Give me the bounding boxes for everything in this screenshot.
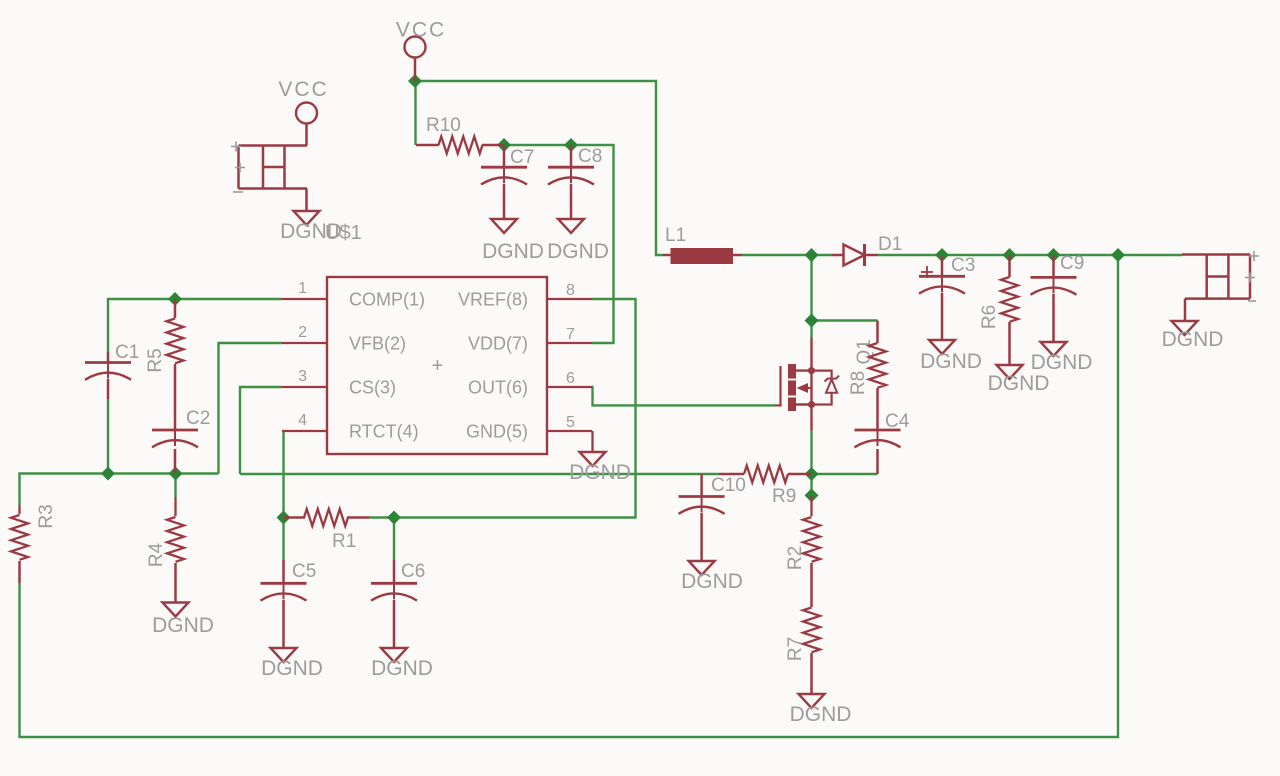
svg-text:C6: C6 <box>401 561 425 582</box>
junction C2/R4 <box>169 467 183 481</box>
inductor L1 <box>663 225 742 264</box>
capacitor C10 <box>679 474 746 561</box>
svg-text:RTCT(4): RTCT(4) <box>349 422 419 442</box>
wire output rail D1 cathode through C3 R6 C9 junctions to right battery <box>878 254 1182 256</box>
svg-text:VCC: VCC <box>278 78 328 101</box>
supply VCC (top) <box>396 19 446 82</box>
svg-text:DGND: DGND <box>988 372 1050 395</box>
svg-text:DGND: DGND <box>482 240 544 263</box>
wire GND pin5 down to ground <box>591 431 593 452</box>
svg-text:R4: R4 <box>146 542 167 567</box>
wire between R9 junction and R2 junction <box>810 474 812 495</box>
pin 7 VDD <box>468 326 592 354</box>
svg-text:GND(5): GND(5) <box>466 422 528 442</box>
svg-text:R2: R2 <box>785 546 806 570</box>
capacitor C2 <box>152 408 210 474</box>
svg-text:C5: C5 <box>292 561 316 582</box>
svg-text:7: 7 <box>566 326 575 343</box>
junction right feedback riser <box>1111 248 1125 262</box>
svg-text:DGND: DGND <box>371 657 433 680</box>
pin 5 GND <box>466 414 592 442</box>
svg-text:C3: C3 <box>951 255 975 276</box>
svg-text:R10: R10 <box>426 115 461 136</box>
svg-text:1: 1 <box>298 280 307 297</box>
svg-text:VREF(8): VREF(8) <box>458 290 528 310</box>
svg-text:R3: R3 <box>36 504 57 528</box>
junction C3 on rail <box>935 248 949 262</box>
svg-text:C4: C4 <box>885 411 910 432</box>
ground DGND (under C3) <box>920 340 982 373</box>
ground DGND (under C5) <box>261 648 323 680</box>
ground DGND (under C10) <box>681 561 743 593</box>
capacitor C9 <box>1031 253 1085 342</box>
svg-text:R1: R1 <box>332 531 356 552</box>
wire R4 top from junction <box>174 474 176 498</box>
wire R3 bottom to long bottom feedback wire up right side to rail <box>20 255 1119 737</box>
svg-text:C9: C9 <box>1060 253 1084 274</box>
svg-text:R5: R5 <box>145 348 166 372</box>
junction R1 right / C6 <box>387 511 401 525</box>
junction R10/C7 <box>497 138 511 152</box>
wire VCC net from top supply junction to right corner then down to L1 <box>415 81 663 255</box>
pin 4 RTCT <box>282 412 419 442</box>
svg-text:Q1: Q1 <box>854 339 875 364</box>
wire MOSFET source down to R9 junction <box>810 431 812 474</box>
resistor R9 <box>719 466 812 508</box>
svg-text:+: + <box>432 355 444 377</box>
junction R1 left / C5 <box>277 511 291 525</box>
svg-text:DGND: DGND <box>681 570 743 593</box>
wire C1 bottom to VFB horizontal <box>107 399 109 474</box>
svg-text:L1: L1 <box>665 225 686 246</box>
junction R9/C4/source <box>805 467 819 481</box>
ground DGND (under C7) <box>482 219 544 263</box>
resistor R4 <box>146 497 184 603</box>
wire CS pin3 left and down <box>240 387 282 474</box>
svg-text:DGND: DGND <box>261 657 323 680</box>
ground DGND (under battery U$1) <box>280 211 342 243</box>
junction L1/D1/drain <box>805 248 819 262</box>
wire OUT pin6 step down and right to MOSFET gate <box>592 387 775 405</box>
svg-text:DGND: DGND <box>1162 328 1224 351</box>
resistor R3 <box>11 504 57 583</box>
wire VREF pin8 right and down to R1/C6 junction <box>394 299 636 518</box>
svg-text:C7: C7 <box>510 147 534 168</box>
svg-text:OUT(6): OUT(6) <box>468 378 528 398</box>
svg-text:DGND: DGND <box>920 350 982 373</box>
supply VCC (left, battery) <box>278 78 328 146</box>
wire RTCT pin4 down to R1/C5 junction <box>282 431 284 518</box>
svg-text:DGND: DGND <box>569 461 631 484</box>
ground DGND (under right battery) <box>1162 321 1224 351</box>
svg-text:R8: R8 <box>848 371 869 395</box>
wire C5 top from junction <box>282 518 284 561</box>
capacitor C3 (polarized) <box>919 255 975 340</box>
capacitor C4 <box>855 411 910 474</box>
wire drain branch down from rail junction <box>810 255 812 338</box>
wire R9 junction right to C4 bottom lead <box>812 473 878 475</box>
svg-text:DGND: DGND <box>1031 351 1093 374</box>
pin 3 CS <box>282 368 396 398</box>
svg-text:C2: C2 <box>186 408 210 429</box>
svg-text:COMP(1): COMP(1) <box>349 290 425 310</box>
junction COMP/R5 <box>168 292 182 306</box>
svg-text:C10: C10 <box>711 475 746 496</box>
svg-text:DGND: DGND <box>280 220 342 243</box>
resistor R8 <box>848 321 886 431</box>
capacitor C1 <box>85 342 139 399</box>
junction C8 <box>564 138 578 152</box>
battery U$2 (right) <box>1182 251 1259 321</box>
ground DGND (under R4) <box>152 603 214 638</box>
svg-text:C1: C1 <box>115 342 139 363</box>
transistor Q1 (n-channel MOSFET) <box>775 338 875 431</box>
svg-text:VFB(2): VFB(2) <box>349 334 406 354</box>
wire net after L1 to D1 anode junction <box>742 254 832 256</box>
svg-text:VDD(7): VDD(7) <box>468 334 528 354</box>
wire VCC net junction down to R10 <box>414 81 416 145</box>
junction at VCC supply <box>408 74 422 88</box>
resistor R5 <box>145 299 184 430</box>
svg-text:3: 3 <box>298 368 307 385</box>
pin 1 COMP <box>282 280 425 310</box>
svg-text:R6: R6 <box>979 305 1000 329</box>
ground DGND (under C9) <box>1031 342 1093 374</box>
svg-text:2: 2 <box>298 324 307 341</box>
svg-text:8: 8 <box>566 282 575 299</box>
junction drain/R8 <box>805 314 819 328</box>
svg-text:6: 6 <box>566 370 575 387</box>
diode D1 <box>832 234 902 266</box>
svg-text:4: 4 <box>298 412 307 429</box>
capacitor C5 <box>261 560 317 648</box>
battery U$1 (left) <box>231 142 362 245</box>
ground DGND (under R7) <box>790 694 852 726</box>
wire R1 right lead to junction <box>369 516 394 518</box>
pin 8 VREF <box>458 282 592 310</box>
junction C9 on rail <box>1047 248 1061 262</box>
junction R6 on rail <box>1003 248 1017 262</box>
wire VFB long horizontal to R3 <box>20 474 219 506</box>
svg-text:DGND: DGND <box>152 614 214 637</box>
junction R2 top <box>805 488 819 502</box>
resistor R2 <box>785 495 820 607</box>
pin 6 OUT <box>468 370 592 398</box>
capacitor C7 <box>481 145 534 219</box>
ground DGND (under C8) <box>547 219 609 263</box>
wire CS horizontal to C10 and R9 <box>240 473 719 475</box>
svg-text:R9: R9 <box>772 486 796 507</box>
svg-text:DGND: DGND <box>790 703 852 726</box>
svg-text:VCC: VCC <box>396 19 446 42</box>
resistor R6 <box>979 255 1018 365</box>
svg-text:C8: C8 <box>578 146 602 167</box>
wire VCC net R10 to C7/C8 junctions and corner down to VDD <box>504 145 614 343</box>
capacitor C6 <box>371 560 425 648</box>
resistor R7 <box>785 608 820 695</box>
svg-text:D1: D1 <box>878 234 902 255</box>
svg-text:R7: R7 <box>785 637 806 661</box>
wire VFB pin2 left and down to long horizontal <box>219 343 283 474</box>
svg-text:5: 5 <box>566 414 575 431</box>
resistor R1 <box>284 509 370 552</box>
resistor R10 <box>416 115 504 154</box>
ground DGND (pin 5) <box>569 452 631 484</box>
svg-text:DGND: DGND <box>547 240 609 263</box>
junction C1 bottom <box>101 467 115 481</box>
ground DGND (under R6) <box>988 365 1050 395</box>
wire drain junction to R8 top <box>812 319 878 321</box>
capacitor C8 <box>548 145 602 219</box>
svg-text:CS(3): CS(3) <box>349 378 396 398</box>
pin 2 VFB <box>282 324 406 354</box>
ground DGND (under C6) <box>371 648 433 680</box>
IC U2 body <box>327 277 547 454</box>
wire COMP pin1 left to C1 top corner <box>108 299 282 352</box>
wire C6 top from junction <box>393 518 395 561</box>
